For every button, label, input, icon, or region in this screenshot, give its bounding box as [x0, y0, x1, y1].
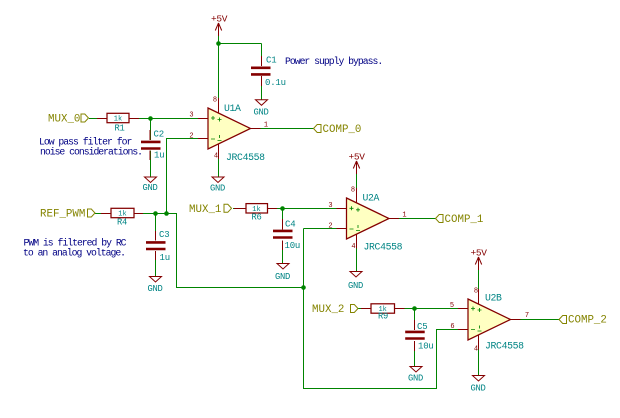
svg-text:Power supply bypass.: Power supply bypass.: [285, 56, 382, 67]
svg-text:REF_PWM: REF_PWM: [40, 209, 85, 221]
svg-text:C1: C1: [266, 56, 276, 66]
svg-text:U1A: U1A: [224, 103, 241, 114]
svg-text:R9: R9: [378, 312, 388, 322]
svg-text:MUX_1: MUX_1: [189, 204, 221, 216]
svg-text:C5: C5: [417, 322, 427, 332]
svg-text:U2B: U2B: [485, 293, 502, 304]
svg-text:1: 1: [402, 212, 406, 220]
svg-text:to an analog voltage.: to an analog voltage.: [23, 247, 125, 258]
svg-text:6: 6: [450, 323, 454, 331]
svg-text:COMP_2: COMP_2: [568, 315, 607, 327]
svg-text:+5V: +5V: [211, 14, 228, 25]
svg-text:2: 2: [189, 133, 193, 141]
svg-text:4: 4: [214, 153, 218, 161]
svg-text:GND: GND: [275, 272, 290, 282]
svg-text:4: 4: [474, 346, 478, 354]
svg-text:10u: 10u: [285, 241, 301, 251]
svg-text:1u: 1u: [160, 253, 170, 263]
svg-text:GND: GND: [254, 108, 269, 118]
svg-text:3: 3: [189, 112, 193, 120]
svg-text:COMP_0: COMP_0: [323, 124, 362, 136]
svg-text:4: 4: [351, 243, 355, 251]
svg-text:+5V: +5V: [349, 152, 366, 163]
svg-text:JRC4558: JRC4558: [485, 341, 524, 352]
svg-text:3: 3: [328, 202, 332, 210]
svg-text:8: 8: [351, 187, 355, 195]
svg-text:GND: GND: [348, 281, 363, 291]
svg-text:MUX_2: MUX_2: [312, 304, 344, 316]
svg-text:GND: GND: [210, 184, 225, 194]
svg-text:R4: R4: [117, 218, 127, 228]
svg-text:8: 8: [474, 288, 478, 296]
svg-text:U2A: U2A: [363, 193, 380, 204]
svg-text:GND: GND: [148, 284, 163, 294]
svg-text:R6: R6: [252, 213, 262, 223]
svg-text:C4: C4: [285, 220, 295, 230]
svg-text:2: 2: [328, 223, 332, 231]
svg-text:1u: 1u: [154, 150, 164, 160]
svg-text:COMP_1: COMP_1: [445, 214, 484, 226]
svg-text:8: 8: [213, 97, 217, 105]
svg-text:GND: GND: [143, 183, 158, 193]
svg-text:R1: R1: [115, 124, 125, 134]
svg-text:1: 1: [264, 122, 268, 130]
svg-text:7: 7: [525, 312, 529, 320]
svg-text:GND: GND: [471, 384, 486, 394]
svg-text:0.1u: 0.1u: [265, 78, 286, 88]
svg-text:JRC4558: JRC4558: [364, 242, 403, 253]
svg-text:GND: GND: [408, 374, 423, 384]
svg-text:noise considerations.: noise considerations.: [40, 147, 142, 158]
svg-text:C2: C2: [154, 129, 164, 139]
svg-text:+5V: +5V: [471, 248, 488, 259]
svg-text:JRC4558: JRC4558: [226, 152, 265, 163]
svg-text:10u: 10u: [418, 342, 434, 352]
svg-text:MUX_0: MUX_0: [48, 114, 80, 126]
svg-text:1k: 1k: [114, 116, 122, 124]
svg-text:C3: C3: [159, 230, 169, 240]
svg-text:5: 5: [450, 302, 454, 310]
